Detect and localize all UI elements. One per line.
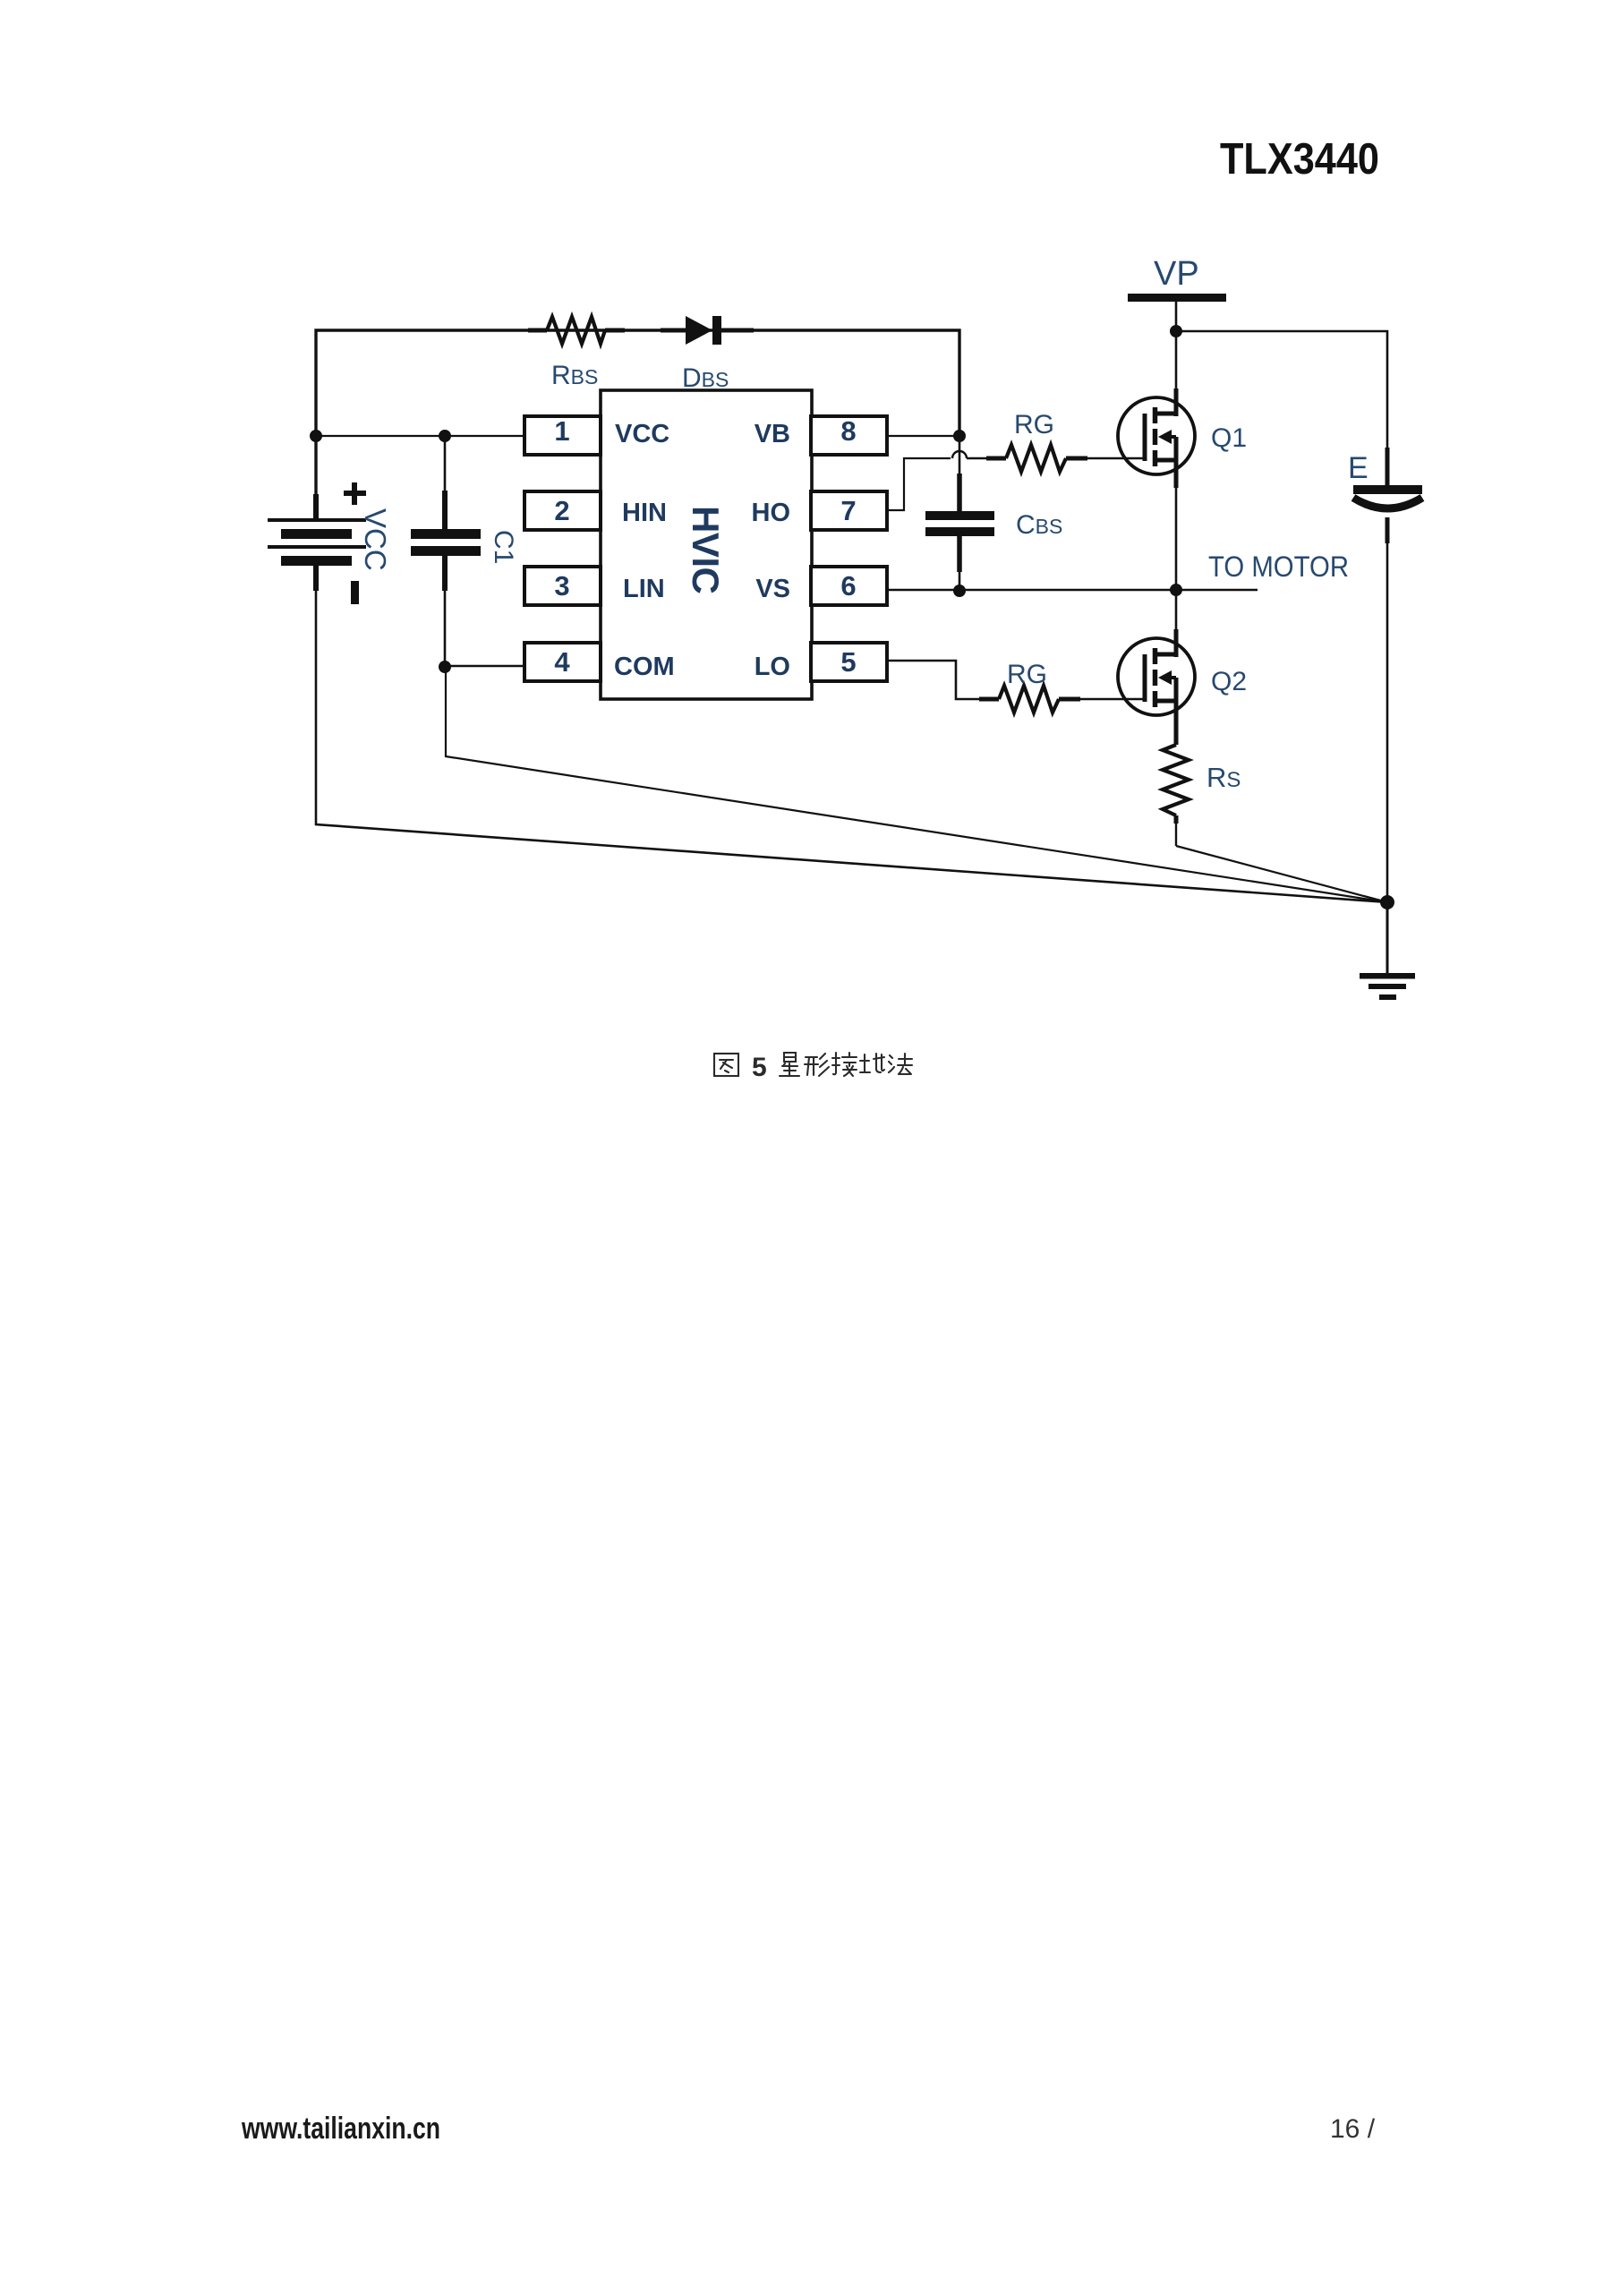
wire VP node to E cap — [1176, 331, 1387, 448]
svg-text:4: 4 — [554, 646, 570, 678]
svg-text:LO: LO — [755, 653, 790, 681]
svg-text:TO MOTOR: TO MOTOR — [1208, 551, 1349, 583]
ground — [1360, 973, 1415, 1000]
node C1 top junction — [439, 430, 451, 442]
svg-text:E: E — [1348, 451, 1368, 485]
VP supply bar — [1128, 294, 1226, 302]
pin 2 box — [524, 491, 601, 530]
wire pin 5 step to RG lower — [887, 661, 979, 699]
svg-text:16 /: 16 / — [1330, 2114, 1376, 2144]
svg-text:RG: RG — [1014, 410, 1054, 440]
svg-text:5: 5 — [840, 646, 856, 678]
char xing (star) — [780, 1053, 799, 1076]
char jie (connect) — [832, 1053, 857, 1076]
node VCC rail junction — [310, 430, 322, 442]
node motor junction — [1170, 584, 1182, 596]
resistor RG upper — [986, 445, 1087, 472]
wire VCC rail to pin 1 — [316, 435, 524, 437]
wire battery negative rail — [316, 591, 1387, 902]
svg-text:DBS: DBS — [682, 363, 729, 393]
capacitor CBS — [925, 436, 994, 591]
char fa (method) — [889, 1054, 912, 1074]
svg-text:CBS: CBS — [1016, 510, 1062, 540]
wire Q1 source to motor node — [1175, 488, 1178, 590]
wire star point to ground — [1386, 902, 1389, 974]
svg-text:VCC: VCC — [359, 508, 392, 571]
svg-text:VCC: VCC — [615, 420, 669, 448]
wire COM node to pin 4 — [445, 665, 524, 668]
svg-text:HO: HO — [752, 499, 791, 527]
svg-text:COM: COM — [614, 653, 675, 681]
svg-text:1: 1 — [554, 415, 569, 447]
resistor Rs — [1163, 729, 1189, 846]
pin 5 box — [811, 643, 887, 681]
node COM junction — [439, 661, 451, 673]
battery plus sign — [344, 482, 366, 505]
transistor Q2 — [1118, 629, 1195, 729]
svg-text:VP: VP — [1154, 255, 1199, 293]
svg-text:5: 5 — [752, 1053, 767, 1082]
wire VP bar to node — [1175, 302, 1178, 331]
svg-text:Q2: Q2 — [1211, 667, 1247, 696]
char xing (shape) — [805, 1054, 829, 1076]
svg-text:TLX3440: TLX3440 — [1220, 135, 1379, 184]
svg-text:6: 6 — [840, 570, 856, 602]
wire RG to Q1 gate — [1087, 457, 1146, 460]
svg-text:RBS: RBS — [551, 361, 598, 390]
wire RG to Q2 gate — [1080, 698, 1146, 701]
capacitor E — [1353, 448, 1422, 902]
wire hop over CBS lead — [952, 451, 967, 458]
svg-text:VB: VB — [755, 420, 790, 448]
pin 8 box — [811, 416, 887, 455]
transistor Q1 — [1118, 388, 1195, 488]
node VS junction — [953, 585, 966, 597]
wire pin 8 to VB node — [887, 435, 959, 437]
wire Rs to star point — [1176, 846, 1387, 902]
wire VS / TO MOTOR line — [887, 589, 1258, 592]
svg-text:3: 3 — [554, 570, 569, 602]
svg-text:C1: C1 — [489, 530, 518, 564]
svg-text:2: 2 — [554, 495, 569, 526]
wire VP node to Q1 drain — [1175, 331, 1178, 397]
svg-text:HVIC: HVIC — [685, 506, 727, 594]
svg-text:8: 8 — [840, 415, 856, 447]
svg-text:HIN: HIN — [622, 499, 667, 527]
resistor RG lower — [979, 686, 1080, 713]
caption figure 5 — [714, 1053, 912, 1082]
pin 6 box — [811, 567, 887, 605]
IC U1 HVIC body — [601, 390, 812, 699]
node VB junction — [953, 430, 966, 442]
battery VCC — [268, 494, 366, 591]
battery minus sign — [351, 581, 359, 604]
node VP junction — [1170, 325, 1182, 337]
capacitor C1 — [411, 436, 481, 667]
svg-text:www.tailianxin.cn: www.tailianxin.cn — [241, 2112, 440, 2146]
svg-text:7: 7 — [840, 495, 856, 526]
svg-text:Q1: Q1 — [1211, 423, 1247, 453]
wire COM node down and diagonal to star point — [446, 667, 1387, 902]
star point node — [1380, 895, 1394, 909]
wire pin 7 step to RG — [887, 458, 951, 510]
wire top loop from battery to RBS/DBS to VB node — [316, 330, 959, 519]
char tu (picture) — [714, 1054, 738, 1076]
svg-text:RG: RG — [1007, 660, 1047, 689]
svg-text:VS: VS — [755, 575, 790, 603]
diode DBS — [661, 316, 754, 345]
pin 3 box — [524, 567, 601, 605]
pin 7 box — [811, 491, 887, 530]
pin 4 box — [524, 643, 601, 681]
pin 1 box — [524, 416, 601, 455]
svg-text:LIN: LIN — [623, 575, 665, 603]
wire motor node to Q2 drain — [1175, 590, 1178, 629]
resistor RBS — [528, 317, 625, 344]
char di (ground) — [860, 1054, 884, 1072]
